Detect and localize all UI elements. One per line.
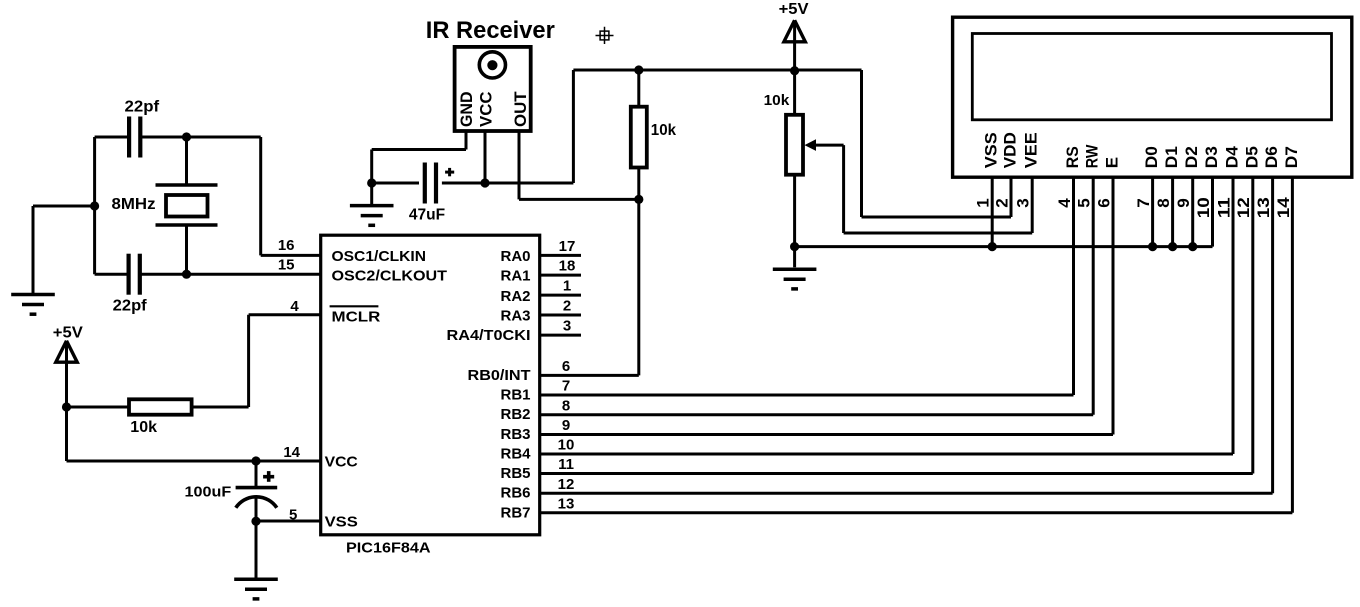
svg-text:9: 9 (562, 417, 570, 434)
svg-text:RB7: RB7 (500, 504, 530, 521)
svg-text:VDD: VDD (1001, 132, 1020, 168)
svg-text:VCC: VCC (477, 92, 496, 128)
svg-text:13: 13 (558, 496, 575, 513)
svg-text:16: 16 (278, 237, 295, 254)
svg-text:9: 9 (1174, 198, 1193, 207)
svg-text:10: 10 (558, 437, 575, 454)
svg-text:RB3: RB3 (500, 426, 530, 443)
svg-text:D6: D6 (1262, 146, 1281, 168)
svg-text:13: 13 (1254, 197, 1273, 218)
svg-text:OSC1/CLKIN: OSC1/CLKIN (332, 248, 427, 265)
svg-text:RB0/INT: RB0/INT (468, 367, 531, 384)
svg-text:RS: RS (1063, 146, 1082, 168)
svg-text:3: 3 (1014, 198, 1033, 207)
svg-text:VSS: VSS (982, 132, 1001, 168)
svg-text:11: 11 (558, 456, 574, 473)
svg-text:6: 6 (562, 358, 570, 375)
svg-text:VEE: VEE (1022, 132, 1041, 168)
svg-text:8: 8 (1154, 198, 1173, 207)
svg-text:RB1: RB1 (500, 387, 530, 404)
svg-text:8MHz: 8MHz (112, 196, 156, 213)
svg-text:RA0: RA0 (500, 248, 530, 265)
svg-text:RB5: RB5 (500, 465, 530, 482)
svg-text:VSS: VSS (325, 514, 358, 531)
svg-text:1: 1 (974, 198, 993, 207)
svg-text:MCLR: MCLR (332, 309, 381, 326)
svg-text:D7: D7 (1282, 146, 1301, 168)
svg-text:4: 4 (290, 298, 299, 315)
svg-text:RA3: RA3 (500, 308, 530, 325)
svg-text:D4: D4 (1223, 146, 1242, 169)
svg-text:22pf: 22pf (125, 99, 160, 116)
svg-text:2: 2 (992, 198, 1011, 207)
svg-text:IR Receiver: IR Receiver (426, 17, 555, 44)
svg-text:10k: 10k (764, 92, 790, 109)
svg-text:47uF: 47uF (409, 207, 445, 224)
svg-text:RW: RW (1083, 144, 1102, 168)
svg-text:VCC: VCC (325, 454, 358, 471)
svg-text:1: 1 (563, 278, 571, 295)
svg-text:17: 17 (559, 238, 576, 255)
svg-text:10k: 10k (130, 419, 157, 436)
svg-text:7: 7 (562, 378, 570, 395)
svg-text:OSC2/CLKOUT: OSC2/CLKOUT (332, 268, 448, 285)
svg-text:5: 5 (1075, 198, 1094, 207)
svg-text:2: 2 (563, 298, 571, 315)
svg-text:RA4/T0CKI: RA4/T0CKI (447, 327, 531, 344)
svg-text:14: 14 (283, 444, 300, 461)
svg-text:3: 3 (563, 318, 571, 335)
svg-text:100uF: 100uF (185, 484, 232, 501)
svg-text:RB2: RB2 (500, 406, 530, 423)
svg-text:6: 6 (1094, 198, 1113, 207)
svg-text:7: 7 (1134, 198, 1153, 207)
svg-text:+5V: +5V (53, 324, 83, 341)
svg-text:D0: D0 (1142, 146, 1161, 168)
svg-text:D2: D2 (1182, 146, 1201, 168)
svg-text:RB6: RB6 (500, 485, 530, 502)
svg-text:RA2: RA2 (500, 288, 530, 305)
svg-text:D1: D1 (1162, 146, 1181, 168)
svg-text:E: E (1103, 157, 1122, 168)
svg-text:10k: 10k (651, 122, 676, 139)
svg-text:5: 5 (289, 506, 297, 523)
svg-text:D5: D5 (1242, 146, 1261, 168)
svg-text:RB4: RB4 (500, 446, 531, 463)
svg-text:4: 4 (1055, 198, 1074, 208)
svg-text:8: 8 (562, 397, 570, 414)
svg-text:GND: GND (457, 92, 476, 128)
svg-text:12: 12 (558, 476, 575, 493)
svg-text:OUT: OUT (511, 91, 530, 127)
svg-text:PIC16F84A: PIC16F84A (346, 540, 431, 557)
svg-text:15: 15 (278, 257, 295, 274)
svg-text:+5V: +5V (779, 1, 809, 18)
svg-text:D3: D3 (1202, 146, 1221, 168)
svg-text:22pf: 22pf (113, 297, 148, 314)
svg-text:RA1: RA1 (500, 268, 530, 285)
svg-text:11: 11 (1214, 197, 1233, 218)
svg-text:14: 14 (1274, 197, 1293, 219)
svg-text:12: 12 (1234, 197, 1253, 218)
svg-text:10: 10 (1194, 197, 1213, 218)
svg-text:18: 18 (559, 258, 576, 275)
